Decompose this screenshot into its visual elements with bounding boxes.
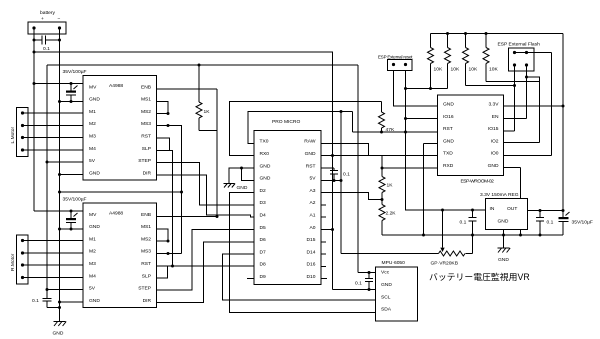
svg-text:M2: M2 xyxy=(89,249,96,255)
svg-text:IO2: IO2 xyxy=(491,138,499,144)
svg-text:2.2K: 2.2K xyxy=(386,211,397,217)
wire PM D2 to MPU SDA xyxy=(230,193,376,313)
svg-text:−: − xyxy=(58,17,61,22)
svg-text:D15: D15 xyxy=(307,237,316,243)
svg-text:D3: D3 xyxy=(260,200,267,206)
svg-text:GND: GND xyxy=(260,176,271,182)
svg-text:MS2: MS2 xyxy=(141,109,151,115)
svg-text:D6: D6 xyxy=(260,237,267,243)
connector J2 R.Motor xyxy=(10,235,28,284)
capacitor C5 0.1 (PM reset) xyxy=(330,168,350,182)
resistor R3 10K xyxy=(463,34,515,86)
svg-text:D2: D2 xyxy=(260,188,267,194)
svg-text:35V/100µF: 35V/100µF xyxy=(63,197,87,203)
wire reset pin2 to REG IN xyxy=(406,71,486,211)
svg-text:GND: GND xyxy=(498,257,509,263)
capacitor C9 0.1 (MPU) xyxy=(355,273,373,290)
wire top 3.3V rail xyxy=(431,33,564,35)
wire IC2 5V xyxy=(47,289,83,291)
wire IO2 riser xyxy=(527,77,540,143)
svg-text:3.3V: 3.3V xyxy=(488,102,499,108)
svg-text:SDA: SDA xyxy=(381,307,392,313)
svg-text:TXD: TXD xyxy=(443,151,453,157)
wire IC2 ENB xyxy=(157,216,218,218)
svg-text:IO16: IO16 xyxy=(443,114,454,120)
wire ESP GND4 to GND rail xyxy=(424,144,438,236)
wire REG GND to ground xyxy=(503,230,505,249)
svg-text:D16: D16 xyxy=(307,262,316,268)
wire pot feed line xyxy=(341,253,439,255)
svg-text:GND: GND xyxy=(260,163,271,169)
svg-text:GND: GND xyxy=(443,138,454,144)
potentiometer VR1 GP-VR20KB xyxy=(431,210,473,267)
svg-text:D9: D9 xyxy=(260,274,267,280)
svg-text:Vcc: Vcc xyxy=(381,270,390,276)
wire PM GND2 to divider xyxy=(321,156,382,177)
svg-text:GND: GND xyxy=(89,170,100,176)
capacitor C1 0.1 (battery) xyxy=(33,36,62,53)
svg-text:バッテリー電圧監視用VR: バッテリー電圧監視用VR xyxy=(429,271,530,282)
connector J3 ESP External reset xyxy=(378,55,413,71)
svg-text:IN: IN xyxy=(490,206,495,212)
svg-text:GND: GND xyxy=(53,331,64,337)
ground GND (REG) xyxy=(498,248,511,263)
svg-text:5V: 5V xyxy=(310,176,317,182)
connector J1 L.Motor xyxy=(10,108,28,157)
svg-text:MS3: MS3 xyxy=(141,249,151,255)
wire IC1 SLP riser to D8 net xyxy=(170,151,173,267)
wire rail B xyxy=(47,64,358,66)
svg-text:0.1: 0.1 xyxy=(43,46,50,52)
wire PM 5V row xyxy=(321,180,341,182)
svg-text:TX0: TX0 xyxy=(260,139,269,145)
wire IC1 STEP to D3 xyxy=(157,163,255,206)
svg-text:A3: A3 xyxy=(310,188,316,194)
svg-text:RX0: RX0 xyxy=(260,151,270,157)
svg-text:A4988: A4988 xyxy=(109,83,123,89)
op IC1 A4988 box xyxy=(83,76,157,181)
wire flash top pins to IO0 xyxy=(515,53,552,156)
svg-text:1K: 1K xyxy=(387,183,394,189)
ground GND (pro micro) xyxy=(224,184,248,192)
wire IC1 MS1 jog xyxy=(157,102,169,114)
svg-text:PRO MICRO: PRO MICRO xyxy=(272,119,300,125)
svg-text:A2: A2 xyxy=(310,200,316,206)
svg-text:GND: GND xyxy=(89,97,100,103)
op U2 ESP-WROOM-02 box xyxy=(438,95,504,185)
wire PM RXD loop to 47K xyxy=(230,102,382,156)
wire ESP IO15 xyxy=(504,130,515,132)
wire GND rail to MS trunk xyxy=(60,191,182,193)
svg-text:RAW: RAW xyxy=(304,139,316,145)
svg-text:MPU·6050: MPU·6050 xyxy=(382,260,406,266)
svg-text:0.1: 0.1 xyxy=(547,220,554,226)
svg-text:RST: RST xyxy=(306,163,316,169)
wire IC2 RST to PM D8 xyxy=(157,265,255,267)
capacitor C2 35V/100uF electrolytic xyxy=(66,84,78,104)
wire ESP IO2 xyxy=(504,142,540,144)
svg-text:MV: MV xyxy=(89,84,97,90)
wire rail B to MPU Vcc xyxy=(358,65,376,273)
wire 5V left vertical (x=47) xyxy=(46,65,48,299)
wire PM A2 A1 A0 D15 D16 stubs xyxy=(321,205,333,267)
wire 3.3V right trunk xyxy=(562,34,564,218)
svg-text:RST: RST xyxy=(443,126,453,132)
wire IC2 GND pin xyxy=(60,228,84,230)
wire battery- GND trunk xyxy=(59,28,61,322)
wire flash BR pin to EN xyxy=(526,65,528,119)
resistor R2 10K xyxy=(445,34,460,89)
wire PM RST stub to cap xyxy=(321,167,334,169)
wire IC1 MS3 xyxy=(157,125,169,127)
svg-text:10K: 10K xyxy=(489,67,498,73)
wire IC2 MS2 xyxy=(157,240,169,242)
svg-text:L.Motor: L.Motor xyxy=(10,127,16,144)
svg-text:ENB: ENB xyxy=(141,84,151,90)
wire rail A (5V top) xyxy=(34,52,376,290)
svg-text:5V: 5V xyxy=(89,286,96,292)
wire IC2 STEP to D5 xyxy=(157,230,255,291)
wire ESP IO16 to reset pin2 xyxy=(406,118,438,120)
wire IC2 M1..M4 xyxy=(23,241,84,278)
svg-text:M2: M2 xyxy=(89,121,96,127)
battery BT1 xyxy=(28,10,66,34)
svg-text:0.1: 0.1 xyxy=(32,298,39,304)
wire IC2 RST-SLP loop xyxy=(157,266,168,278)
svg-text:3.3V 150mA REG: 3.3V 150mA REG xyxy=(480,192,519,198)
wire ENB chain vertical xyxy=(216,89,218,217)
ground GND (bottom left) xyxy=(53,322,67,337)
svg-text:M3: M3 xyxy=(89,261,96,267)
svg-text:GP·VR20KB: GP·VR20KB xyxy=(431,261,458,267)
svg-text:STEP: STEP xyxy=(138,158,151,164)
wire ESP GND right to rail xyxy=(504,168,521,236)
svg-text:MV: MV xyxy=(89,212,97,218)
wire ESP EN xyxy=(504,118,527,120)
svg-text:ENB: ENB xyxy=(141,212,151,218)
wire PM D7 to MPU SCL xyxy=(223,254,376,300)
svg-text:M1: M1 xyxy=(89,236,96,242)
svg-text:battery: battery xyxy=(40,10,56,16)
svg-text:MS1: MS1 xyxy=(141,224,151,230)
svg-text:MS1: MS1 xyxy=(141,97,151,103)
wire IC1 GND8 xyxy=(60,174,84,176)
resistor R1 10K xyxy=(428,34,443,89)
svg-text:0.1: 0.1 xyxy=(460,220,467,226)
svg-text:ESP External Flash: ESP External Flash xyxy=(498,42,541,48)
svg-text:0.1: 0.1 xyxy=(355,281,362,287)
svg-text:EN: EN xyxy=(492,114,499,120)
svg-text:STEP: STEP xyxy=(138,286,151,292)
svg-text:DIR: DIR xyxy=(143,298,152,304)
wire IC2 MS1 jog xyxy=(157,229,169,241)
wire IC1 DIR to D4 xyxy=(157,175,255,217)
svg-text:GND: GND xyxy=(498,219,509,225)
svg-text:35V/100µF: 35V/100µF xyxy=(63,69,87,75)
svg-text:DIR: DIR xyxy=(143,170,152,176)
wire reset pin1 to ESP GND xyxy=(394,71,438,107)
svg-text:GND: GND xyxy=(488,163,499,169)
wire IC1 MS2 xyxy=(157,113,169,115)
capacitor C7 0.1 (REG out) xyxy=(536,211,554,236)
wire battery+ vertical trunk xyxy=(33,28,35,211)
op U3 3.3V 150mA REG xyxy=(480,192,528,230)
wire IC2 GND8 xyxy=(60,301,84,303)
wire PM RAW to ESP TXD xyxy=(321,144,438,156)
svg-text:OUT: OUT xyxy=(507,206,517,212)
op IC2 A4988 box xyxy=(83,203,157,308)
svg-text:+: + xyxy=(41,17,44,22)
svg-text:GND: GND xyxy=(381,282,392,288)
resistor R7 2.2K divider xyxy=(379,205,396,221)
svg-text:D7: D7 xyxy=(260,249,267,255)
svg-text:ESP External reset: ESP External reset xyxy=(378,55,413,60)
wire ESP IO0 xyxy=(504,155,552,157)
wire ESP 3.3V xyxy=(504,105,564,107)
svg-text:RST: RST xyxy=(141,261,151,267)
capacitor C6 35V/10uF electrolytic xyxy=(559,212,593,235)
wire IC1 RST-SLP loop xyxy=(157,138,170,151)
svg-text:M4: M4 xyxy=(89,146,96,152)
svg-text:10K: 10K xyxy=(469,67,478,73)
svg-text:35V/10µF: 35V/10µF xyxy=(572,220,593,226)
op U1 PRO MICRO box xyxy=(254,119,321,285)
wire divider tap to A3 xyxy=(321,193,382,200)
svg-text:A0: A0 xyxy=(310,225,316,231)
wire IC1 MV xyxy=(34,83,83,85)
wire M1..M4 from L.Motor xyxy=(23,113,84,150)
wire GND rail 235 xyxy=(382,234,563,236)
svg-text:RST: RST xyxy=(141,134,151,140)
svg-text:A4988: A4988 xyxy=(109,211,123,217)
svg-text:MS3: MS3 xyxy=(141,121,151,127)
svg-text:GND: GND xyxy=(89,298,100,304)
svg-text:GND: GND xyxy=(443,102,454,108)
wire R1R2 to reset pin2 xyxy=(406,88,448,90)
svg-text:GND: GND xyxy=(89,224,100,230)
wire MS tie trunk xyxy=(168,126,182,254)
svg-text:IO0: IO0 xyxy=(491,151,499,157)
svg-text:GND: GND xyxy=(237,185,248,191)
svg-text:D8: D8 xyxy=(260,262,267,268)
wire IC1 GND pin xyxy=(60,101,84,103)
wire ESP RST line xyxy=(353,112,438,133)
svg-text:D4: D4 xyxy=(260,213,267,219)
svg-text:D10: D10 xyxy=(307,274,316,280)
wire TX drop vertical to pot line xyxy=(340,112,342,254)
svg-text:M3: M3 xyxy=(89,134,96,140)
capacitor C4 0.1 (bottom left) xyxy=(32,298,61,309)
svg-text:GND: GND xyxy=(305,151,316,157)
svg-text:R.Motor: R.Motor xyxy=(10,253,16,271)
wire IC2 MS3 xyxy=(157,253,182,255)
svg-text:0.1: 0.1 xyxy=(343,172,350,178)
wire PM D9 stub xyxy=(247,278,254,280)
resistor R6 1K divider xyxy=(379,177,393,193)
capacitor C8 0.1 (REG in) xyxy=(460,210,477,235)
svg-text:D14: D14 xyxy=(307,249,316,255)
wire IC1 ENB to chain xyxy=(157,88,218,90)
svg-text:A1: A1 xyxy=(310,213,316,219)
wire IC2 MV rail from battery+ xyxy=(34,210,83,212)
svg-text:D5: D5 xyxy=(260,225,267,231)
svg-text:SLP: SLP xyxy=(142,273,151,279)
svg-text:1K: 1K xyxy=(204,109,211,115)
connector J4 ESP External Flash xyxy=(498,42,541,72)
op U4 MPU-6050 xyxy=(376,260,418,321)
wire flash BL pin to IO15 xyxy=(514,65,516,131)
svg-text:M4: M4 xyxy=(89,273,96,279)
wire IC2 DIR to D6 xyxy=(157,242,255,303)
wire IC1 5V xyxy=(47,161,83,163)
svg-text:M1: M1 xyxy=(89,109,96,115)
capacitor C3 35V/100uF electrolytic xyxy=(66,211,78,231)
wire REG OUT xyxy=(528,210,564,212)
svg-text:10K: 10K xyxy=(434,67,443,73)
svg-text:MS2: MS2 xyxy=(141,236,151,242)
svg-text:ESP-WROOM-02: ESP-WROOM-02 xyxy=(461,179,495,185)
svg-text:SCL: SCL xyxy=(381,294,391,300)
resistor R4 10K xyxy=(483,34,540,82)
svg-text:RXD: RXD xyxy=(443,163,454,169)
svg-text:5V: 5V xyxy=(89,158,96,164)
wire ESP RXD from divider drop xyxy=(382,167,438,169)
wire PM D10 stub xyxy=(321,278,327,280)
svg-text:10K: 10K xyxy=(451,67,460,73)
svg-text:IO15: IO15 xyxy=(488,126,499,132)
resistor R5 1K pull xyxy=(196,65,217,131)
resistor R8 47K xyxy=(379,102,395,134)
wire PM GND pins xyxy=(229,168,254,183)
wire PM TX0 loop over box xyxy=(248,112,353,144)
svg-text:SLP: SLP xyxy=(142,146,151,152)
